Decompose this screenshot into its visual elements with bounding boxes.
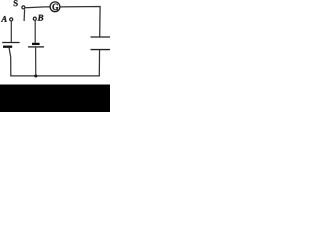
left cell long plate — [2, 42, 19, 44]
bottom wire (with left cell stem) — [9, 48, 100, 76]
middle cell long plate — [28, 46, 44, 48]
left cell short thick plate — [3, 46, 12, 48]
wire: galvanometer to top-right corner — [60, 7, 100, 38]
junction dot — [34, 74, 37, 77]
background — [0, 0, 110, 112]
capacitor bottom plate (right) — [91, 49, 111, 51]
switch common contact (circle at S) — [22, 6, 25, 9]
contact A (circle) — [10, 18, 13, 21]
wire: capacitor bottom plate down to bottom wire — [98, 50, 100, 76]
contact B (circle) — [33, 17, 36, 20]
wire: S contact to galvanometer — [25, 6, 50, 9]
galvanometer G — [50, 2, 60, 12]
wire: middle cell down to junction dot — [35, 48, 37, 76]
wire: contact A down to left cell — [10, 21, 12, 42]
label S — [14, 0, 18, 6]
label B — [38, 15, 44, 21]
switch arm (hanging blade from S) — [23, 9, 26, 21]
earth / black band — [0, 85, 110, 113]
wire: contact B down to middle cell — [34, 21, 36, 43]
label A — [1, 16, 7, 22]
middle cell short thick plate — [32, 43, 40, 45]
capacitor top plate (right) — [91, 36, 111, 38]
